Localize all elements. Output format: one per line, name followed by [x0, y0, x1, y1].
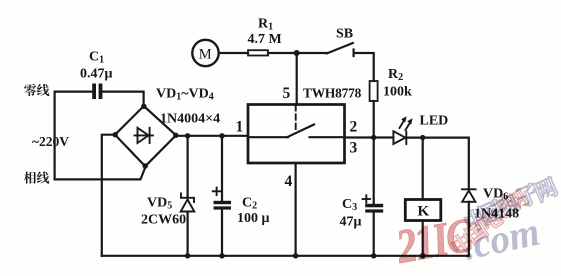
diode VD6 cathode bar — [462, 188, 476, 190]
LED symbol triangle — [393, 131, 405, 144]
watermark chinese red 中国电子网 — [449, 187, 530, 256]
IC internal switch contact line — [310, 136, 345, 138]
motor M circle — [192, 40, 218, 66]
diode VD6 triangle — [462, 191, 475, 202]
wire R1 to junction — [268, 52, 297, 54]
wire motor to R1 — [219, 52, 248, 54]
wire neutral input to C1 — [55, 90, 92, 92]
node dot R2/C3 junction — [371, 135, 376, 140]
svg-text:100 μ: 100 μ — [237, 211, 270, 226]
relay K box — [405, 200, 441, 221]
svg-text:100k: 100k — [383, 85, 412, 100]
wire source vertical between mains terminals — [53, 92, 55, 180]
svg-text:2CW60: 2CW60 — [141, 213, 186, 228]
node junction R1/SB/pin5 — [294, 50, 300, 56]
wire C1 to bridge top — [103, 92, 144, 106]
pin 5 wire from SB junction to IC top — [296, 53, 298, 105]
wire node to VD6 corner — [423, 138, 469, 188]
bottom rail wire — [102, 255, 469, 257]
svg-text:3: 3 — [350, 140, 358, 157]
IC internal switch arm — [287, 125, 314, 138]
svg-text:47μ: 47μ — [340, 215, 362, 230]
label 零线 (neutral) — [24, 84, 49, 96]
node dot C3 rail — [371, 253, 376, 258]
IC internal switch pole line — [248, 136, 288, 138]
capacitor C2 plates — [214, 201, 232, 210]
node dot VD5 top — [185, 133, 190, 138]
svg-text:2: 2 — [350, 119, 358, 136]
capacitor C2 branch wire top — [221, 136, 223, 201]
bridge rectifier VD1-VD4 diamond — [115, 106, 176, 166]
switch SB contact tick — [353, 50, 355, 57]
wire live input to bridge bottom — [55, 167, 146, 179]
node dot pin4 rail — [293, 253, 298, 258]
node dot C2 bottom — [219, 253, 224, 258]
plus sign C2 — [213, 188, 221, 196]
node dot relay top — [420, 135, 425, 140]
zener VD5 branch wire — [187, 136, 189, 256]
LED cathode bar — [405, 132, 407, 145]
wire bridge minus down-left to bottom rail — [102, 135, 115, 256]
IC U1 TWH8778 box — [248, 105, 345, 164]
watermark chinese gray 中国电子网 — [462, 175, 559, 233]
bridge inner diode symbol — [135, 128, 154, 143]
svg-text:~220V: ~220V — [32, 134, 69, 149]
watermark .com gray text — [459, 208, 544, 269]
node dot VD5 bottom — [185, 253, 190, 258]
svg-text:LED: LED — [420, 114, 449, 129]
pin 5 dashed control line inside IC — [295, 105, 297, 131]
pin 4 wire to bottom rail — [295, 163, 297, 256]
svg-text:VD1~VD4: VD1~VD4 — [156, 87, 214, 103]
svg-text:0.47μ: 0.47μ — [80, 67, 113, 82]
node dot relay rail — [420, 253, 426, 259]
wire R2 bottom to node — [373, 101, 375, 138]
capacitor C3 bottom wire — [373, 213, 375, 256]
resistor R1 body — [248, 50, 268, 55]
plus sign C3 — [363, 195, 370, 202]
LED emission arrows — [400, 116, 413, 130]
bridge vertex dots — [113, 104, 179, 169]
capacitor C2 branch wire bottom — [221, 210, 223, 256]
wire junction to switch SB pole — [297, 52, 327, 54]
zener diode VD5 symbol — [181, 194, 195, 212]
wire DC+ bridge to pin1 — [176, 135, 248, 137]
resistor R2 body — [370, 81, 378, 101]
capacitor C3 branch wire — [373, 138, 375, 204]
capacitor C1 plates — [92, 84, 102, 100]
capacitor C3 plates — [365, 204, 383, 213]
switch SB arm — [327, 43, 353, 54]
wire pin2/3 to LED anode — [345, 136, 394, 138]
svg-text:TWH8778: TWH8778 — [303, 86, 362, 101]
wire VD6 to rail — [468, 202, 470, 256]
wire relay to rail — [422, 221, 424, 256]
svg-text:SB: SB — [336, 27, 353, 42]
svg-text:1: 1 — [236, 119, 244, 136]
watermark 21IC red text — [392, 209, 477, 274]
wire LED cathode to relay node — [406, 137, 422, 139]
svg-text:5: 5 — [283, 85, 291, 102]
wire SB to R2 top corner — [354, 53, 374, 81]
svg-text:4: 4 — [285, 173, 293, 190]
node dot C2 top — [219, 133, 224, 138]
svg-text:4.7 M: 4.7 M — [248, 32, 282, 47]
svg-text:M: M — [199, 46, 212, 62]
wire relay branch upper — [422, 138, 424, 200]
label 相线 (live) — [24, 172, 49, 184]
svg-text:1N4004×4: 1N4004×4 — [160, 112, 220, 127]
